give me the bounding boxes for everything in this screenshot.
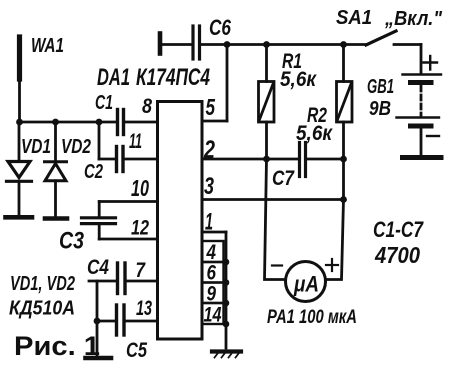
svg-text:12: 12 xyxy=(131,217,149,240)
antenna WA1 xyxy=(17,37,22,122)
resistor R1 xyxy=(259,45,275,160)
diode VD1 xyxy=(7,162,32,182)
svg-text:5: 5 xyxy=(206,94,216,120)
node: C5 tee junction xyxy=(94,318,101,325)
wire: stub to C6 xyxy=(160,43,192,46)
pin box 4 xyxy=(202,241,224,262)
ground terminal under C4/C5 xyxy=(86,356,112,361)
node: pin5 riser junction xyxy=(224,41,231,48)
svg-text:7: 7 xyxy=(136,259,147,282)
svg-text:К174ПС4: К174ПС4 xyxy=(136,64,210,91)
label battery minus xyxy=(427,135,439,137)
pin box 9 xyxy=(202,283,224,304)
node: VD2 branch junction xyxy=(52,119,59,126)
wire: VD1 branch xyxy=(18,122,21,162)
wire: riser to pin 5 xyxy=(226,45,229,122)
wire: pin 3 xyxy=(202,198,344,201)
ground (chassis) xyxy=(212,352,241,358)
wire: pins 4-6-9-14 common riser xyxy=(225,232,228,348)
wire: C1 to pin 8 xyxy=(125,121,158,124)
svg-text:13: 13 xyxy=(136,297,152,320)
svg-text:VD1, VD2: VD1, VD2 xyxy=(10,273,75,295)
wire: meter left column xyxy=(265,159,286,280)
svg-text:С5: С5 xyxy=(126,339,147,362)
svg-text:10: 10 xyxy=(131,175,149,201)
svg-text:11: 11 xyxy=(129,130,142,153)
svg-text:WA1: WA1 xyxy=(31,35,64,57)
svg-text:3: 3 xyxy=(204,173,214,200)
battery GB1 xyxy=(397,45,442,158)
wire: to C5 xyxy=(97,320,115,323)
svg-text:VD2: VD2 xyxy=(61,136,91,158)
wire: C4/C5 left column xyxy=(96,281,99,357)
node: WA1/bus junction xyxy=(16,119,23,126)
svg-text:4700: 4700 xyxy=(374,242,420,268)
svg-text:SA1: SA1 xyxy=(336,7,372,29)
svg-text:VD1: VD1 xyxy=(21,136,51,158)
svg-text:6: 6 xyxy=(207,262,217,285)
node: R1 top junction xyxy=(263,41,270,48)
diode VD2 xyxy=(45,162,67,181)
wire: C4 to pin 7 xyxy=(127,280,158,283)
wire: pin 10 xyxy=(99,200,157,203)
svg-text:2: 2 xyxy=(203,136,215,164)
wire: C4 left xyxy=(89,280,116,283)
svg-text:8: 8 xyxy=(142,95,152,118)
label plus at meter xyxy=(326,259,338,271)
node: box9 junction xyxy=(223,300,230,307)
wire: VD2 to common xyxy=(54,181,57,217)
wire: VD1 to common xyxy=(18,181,21,215)
capacitor C5 xyxy=(117,305,125,335)
wire: to C2 xyxy=(99,158,116,161)
svg-text:С7: С7 xyxy=(272,167,295,190)
capacitor C6 xyxy=(193,26,200,59)
svg-text:GВ1: GВ1 xyxy=(367,76,394,98)
capacitor C7 xyxy=(300,143,306,177)
node: R2/SA1 junction xyxy=(340,41,347,48)
op-amp / IC DA1 K174PS4 body xyxy=(158,102,203,340)
svg-text:С3: С3 xyxy=(59,228,85,255)
wire: C2 to pin 11 xyxy=(125,158,158,161)
svg-text:С1-С7: С1-С7 xyxy=(373,217,424,242)
wire: pin 12 xyxy=(99,238,157,241)
svg-text:14: 14 xyxy=(204,304,222,327)
capacitor C4 xyxy=(118,263,126,294)
terminal stub at C6 input xyxy=(158,34,163,54)
wire: top bus xyxy=(201,43,367,46)
capacitor C1 xyxy=(118,110,124,135)
wire: pin10 down to C3 xyxy=(98,202,101,217)
meter PA1 xyxy=(286,262,326,302)
svg-text:С6: С6 xyxy=(209,15,232,40)
svg-text:μА: μА xyxy=(293,272,319,297)
label minus at meter xyxy=(272,264,282,266)
wire: SA1 to battery xyxy=(394,43,421,46)
capacitor C2 xyxy=(117,147,124,172)
ground terminal under VD2 xyxy=(45,216,67,221)
wire: pin 2 to C7 xyxy=(202,158,298,161)
svg-text:DA1: DA1 xyxy=(97,64,130,91)
node: box4 junction xyxy=(223,259,230,266)
svg-text:С2: С2 xyxy=(84,161,103,183)
svg-text:„Вкл.": „Вкл." xyxy=(384,8,442,30)
svg-text:5,6к: 5,6к xyxy=(280,67,317,91)
wire: VD2 branch xyxy=(54,122,57,163)
svg-text:9В: 9В xyxy=(369,98,391,120)
svg-text:РА1 100 мкА: РА1 100 мкА xyxy=(267,307,357,328)
pin box 14 xyxy=(202,303,224,324)
wire: down from C1 tee xyxy=(98,122,101,159)
svg-text:1: 1 xyxy=(205,209,213,236)
node: box14 junction xyxy=(223,321,230,328)
ground terminal under VD1 xyxy=(6,215,33,220)
node: R1 bottom junction xyxy=(263,156,270,163)
wire: pin 1 xyxy=(202,231,226,234)
wire: left bus y=122 xyxy=(20,121,117,124)
switch SA1 blade xyxy=(366,31,396,45)
capacitor C3 xyxy=(82,218,116,224)
wire: pin 5 xyxy=(202,120,227,123)
node: C1/C2 tee junction xyxy=(96,119,103,126)
wire: meter right column xyxy=(326,200,344,280)
wire: C5 to pin 13 xyxy=(126,320,158,323)
node: R2 bottom junction xyxy=(340,156,347,163)
resistor R2 xyxy=(337,45,353,200)
wire: C3 down to pin 12 xyxy=(98,225,101,239)
svg-text:С4: С4 xyxy=(87,256,109,279)
svg-text:5,6к: 5,6к xyxy=(296,121,333,145)
label battery plus xyxy=(424,56,438,70)
svg-text:С1: С1 xyxy=(95,92,113,114)
svg-text:КД510А: КД510А xyxy=(9,297,75,320)
pin box 6 xyxy=(202,262,224,283)
wire: C7 to R2 column xyxy=(307,158,344,161)
node: pin3/R2 junction xyxy=(340,196,347,203)
node: box6 junction xyxy=(223,279,230,286)
svg-text:Рис. 1: Рис. 1 xyxy=(14,331,100,361)
